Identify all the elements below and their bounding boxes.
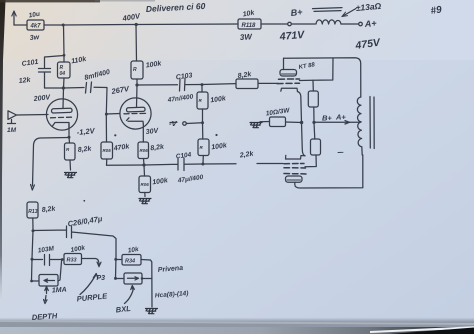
svg-text:1M: 1M (7, 127, 17, 134)
svg-text:-V: -V (169, 119, 177, 128)
svg-text:R06: R06 (140, 148, 149, 153)
svg-text:30V: 30V (145, 128, 159, 136)
svg-text:04: 04 (60, 71, 66, 77)
svg-text:471V: 471V (278, 29, 305, 43)
svg-text:BXL: BXL (115, 304, 131, 315)
svg-text:B+: B+ (290, 7, 303, 18)
svg-text:A+: A+ (335, 113, 346, 122)
svg-text:4k7: 4k7 (30, 24, 42, 30)
svg-text:1MA: 1MA (52, 286, 67, 294)
svg-text:DEPTH: DEPTH (32, 311, 59, 322)
svg-text:3w: 3w (29, 34, 40, 42)
svg-text:#9: #9 (430, 4, 443, 17)
svg-text:B+: B+ (322, 114, 332, 123)
svg-text:R34: R34 (125, 259, 135, 265)
svg-text:12k: 12k (18, 77, 31, 85)
svg-text:R06: R06 (141, 182, 150, 187)
svg-text:R33: R33 (67, 258, 77, 264)
svg-text:R13: R13 (28, 209, 37, 215)
svg-text:3W: 3W (240, 32, 254, 42)
svg-text:R118: R118 (242, 23, 257, 29)
svg-text:A+: A+ (363, 18, 377, 29)
svg-text:R: R (133, 67, 137, 73)
svg-text:P3: P3 (97, 275, 106, 282)
svg-text:R05: R05 (103, 148, 112, 153)
